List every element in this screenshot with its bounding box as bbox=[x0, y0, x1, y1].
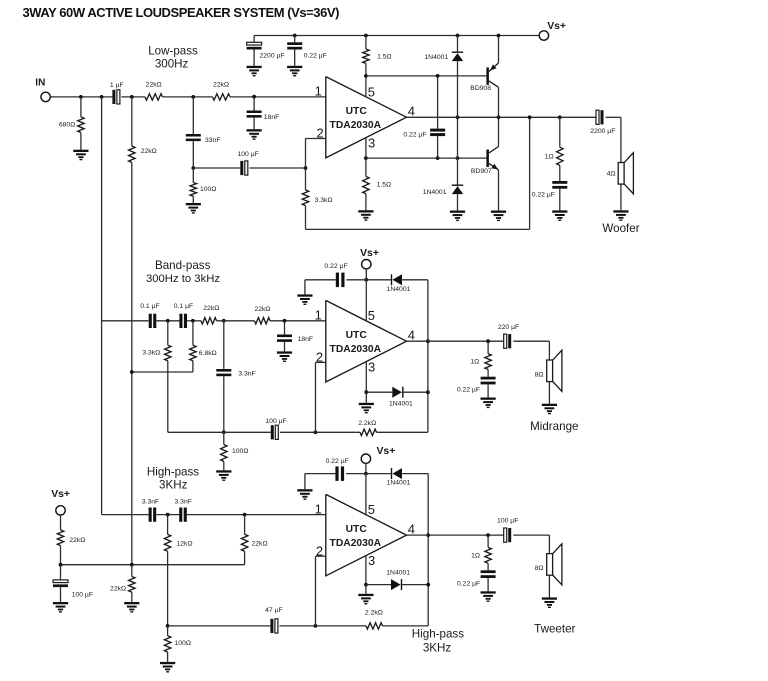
svg-text:1: 1 bbox=[315, 308, 322, 323]
svg-text:0.22 µF: 0.22 µF bbox=[457, 387, 480, 394]
svg-text:BD907: BD907 bbox=[471, 168, 492, 175]
svg-text:Vs+: Vs+ bbox=[51, 489, 70, 500]
svg-text:18nF: 18nF bbox=[298, 336, 314, 343]
svg-text:100Ω: 100Ω bbox=[232, 448, 248, 455]
svg-text:High-pass: High-pass bbox=[412, 628, 464, 641]
svg-text:100 µF: 100 µF bbox=[497, 517, 518, 524]
svg-text:2200 µF: 2200 µF bbox=[260, 53, 285, 60]
svg-text:4: 4 bbox=[408, 522, 415, 537]
svg-text:3KHz: 3KHz bbox=[159, 479, 188, 492]
svg-text:3KHz: 3KHz bbox=[423, 642, 452, 655]
svg-text:4: 4 bbox=[408, 104, 415, 119]
svg-text:2.2kΩ: 2.2kΩ bbox=[358, 420, 376, 427]
svg-text:47 µF: 47 µF bbox=[265, 607, 283, 614]
svg-text:UTC: UTC bbox=[346, 106, 368, 117]
svg-text:TDA2030A: TDA2030A bbox=[330, 120, 382, 131]
svg-text:3.3kΩ: 3.3kΩ bbox=[142, 349, 160, 356]
svg-text:0.22 µF: 0.22 µF bbox=[457, 580, 480, 587]
svg-text:1N4001: 1N4001 bbox=[389, 400, 413, 407]
svg-text:1.5Ω: 1.5Ω bbox=[377, 54, 392, 61]
svg-text:3.3nF: 3.3nF bbox=[175, 499, 192, 506]
svg-text:0.22 µF: 0.22 µF bbox=[403, 132, 426, 139]
svg-text:3.3nF: 3.3nF bbox=[142, 499, 159, 506]
svg-text:1Ω: 1Ω bbox=[470, 359, 479, 366]
svg-text:2.2kΩ: 2.2kΩ bbox=[365, 610, 383, 617]
svg-text:22kΩ: 22kΩ bbox=[141, 148, 157, 155]
svg-text:1.5Ω: 1.5Ω bbox=[377, 182, 392, 189]
svg-text:TDA2030A: TDA2030A bbox=[330, 344, 382, 355]
svg-text:UTC: UTC bbox=[346, 524, 368, 535]
svg-text:3.3nF: 3.3nF bbox=[238, 371, 255, 378]
svg-text:680Ω: 680Ω bbox=[59, 121, 75, 128]
svg-text:Vs+: Vs+ bbox=[360, 248, 379, 259]
svg-text:1N4001: 1N4001 bbox=[386, 569, 410, 576]
svg-text:0.22 µF: 0.22 µF bbox=[326, 458, 349, 465]
svg-text:Woofer: Woofer bbox=[602, 222, 639, 235]
svg-text:1: 1 bbox=[315, 84, 322, 99]
svg-text:1N4001: 1N4001 bbox=[387, 286, 411, 293]
svg-text:8Ω: 8Ω bbox=[535, 372, 544, 379]
svg-text:300Hz to 3kHz: 300Hz to 3kHz bbox=[146, 273, 220, 285]
svg-text:100Ω: 100Ω bbox=[200, 186, 216, 193]
svg-text:1Ω: 1Ω bbox=[545, 154, 554, 161]
svg-text:1N4001: 1N4001 bbox=[424, 54, 448, 61]
svg-text:22kΩ: 22kΩ bbox=[146, 81, 162, 88]
svg-text:18nF: 18nF bbox=[264, 114, 280, 121]
svg-text:100 µF: 100 µF bbox=[265, 418, 286, 425]
svg-text:22kΩ: 22kΩ bbox=[203, 305, 219, 312]
svg-text:4Ω: 4Ω bbox=[607, 171, 616, 178]
svg-text:1N4001: 1N4001 bbox=[387, 479, 411, 486]
svg-text:0.1 µF: 0.1 µF bbox=[174, 303, 193, 310]
svg-text:1: 1 bbox=[315, 501, 322, 516]
svg-text:Low-pass: Low-pass bbox=[148, 45, 198, 58]
svg-text:5: 5 bbox=[368, 84, 375, 99]
svg-text:22kΩ: 22kΩ bbox=[110, 586, 126, 593]
svg-text:1N4001: 1N4001 bbox=[423, 189, 447, 196]
svg-text:100 µF: 100 µF bbox=[72, 591, 93, 598]
svg-text:300Hz: 300Hz bbox=[155, 57, 189, 70]
svg-text:5: 5 bbox=[368, 502, 375, 517]
svg-text:100 µF: 100 µF bbox=[238, 151, 259, 158]
svg-text:0.1 µF: 0.1 µF bbox=[140, 303, 159, 310]
svg-text:3: 3 bbox=[368, 135, 375, 150]
svg-text:BD908: BD908 bbox=[470, 85, 491, 92]
svg-text:UTC: UTC bbox=[346, 330, 368, 341]
svg-text:0.22 µF: 0.22 µF bbox=[532, 191, 555, 198]
svg-text:Tweeter: Tweeter bbox=[534, 623, 575, 636]
svg-text:1 µF: 1 µF bbox=[110, 82, 124, 89]
svg-text:Midrange: Midrange bbox=[530, 420, 578, 433]
svg-text:Band-pass: Band-pass bbox=[155, 259, 211, 272]
svg-text:High-pass: High-pass bbox=[147, 466, 199, 479]
svg-text:5: 5 bbox=[368, 308, 375, 323]
svg-text:IN: IN bbox=[35, 78, 45, 89]
svg-text:8Ω: 8Ω bbox=[535, 565, 544, 572]
svg-text:Vs+: Vs+ bbox=[377, 446, 396, 457]
svg-text:22kΩ: 22kΩ bbox=[213, 81, 229, 88]
svg-text:3: 3 bbox=[368, 553, 375, 568]
svg-text:0.22 µF: 0.22 µF bbox=[304, 53, 327, 60]
svg-text:100Ω: 100Ω bbox=[175, 640, 191, 647]
svg-text:220 µF: 220 µF bbox=[498, 324, 519, 331]
svg-text:22kΩ: 22kΩ bbox=[69, 537, 85, 544]
svg-text:4: 4 bbox=[408, 328, 415, 343]
svg-text:33nF: 33nF bbox=[205, 137, 221, 144]
svg-text:2200 µF: 2200 µF bbox=[590, 128, 615, 135]
svg-text:22kΩ: 22kΩ bbox=[252, 541, 268, 548]
svg-text:22kΩ: 22kΩ bbox=[254, 306, 270, 313]
svg-text:3: 3 bbox=[368, 359, 375, 374]
svg-text:0.22 µF: 0.22 µF bbox=[324, 263, 347, 270]
svg-text:1Ω: 1Ω bbox=[471, 553, 480, 560]
svg-text:2: 2 bbox=[316, 125, 323, 140]
svg-text:TDA2030A: TDA2030A bbox=[330, 538, 382, 549]
svg-text:12kΩ: 12kΩ bbox=[177, 541, 193, 548]
svg-text:3.3kΩ: 3.3kΩ bbox=[315, 197, 333, 204]
svg-text:Vs+: Vs+ bbox=[547, 21, 566, 32]
svg-text:6.8kΩ: 6.8kΩ bbox=[199, 350, 217, 357]
svg-text:3WAY 60W ACTIVE LOUDSPEAKER SY: 3WAY 60W ACTIVE LOUDSPEAKER SYSTEM (Vs=3… bbox=[23, 5, 340, 20]
